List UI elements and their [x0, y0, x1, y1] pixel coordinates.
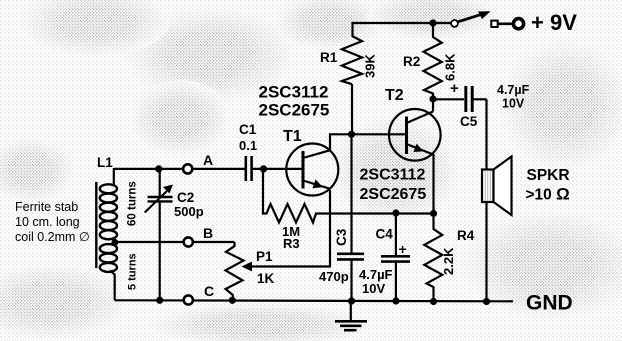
svg-text:+ 9V: + 9V	[531, 10, 577, 35]
svg-text:2.2K: 2.2K	[441, 247, 456, 275]
svg-text:C3: C3	[334, 228, 349, 246]
resistor R4	[424, 210, 442, 302]
wire T2 emitter	[432, 154, 434, 214]
svg-text:R2: R2	[403, 54, 420, 69]
svg-text:2SC3112: 2SC3112	[360, 167, 426, 184]
inductor L1	[100, 168, 117, 300]
svg-text:T2: T2	[385, 87, 404, 104]
svg-text:R1: R1	[320, 50, 338, 65]
node top junction	[429, 19, 436, 26]
terminal A	[183, 164, 192, 173]
wire R1 top stub	[351, 22, 353, 37]
node C4 gnd	[392, 297, 399, 304]
node R1 bottom junction	[348, 131, 355, 138]
svg-text:C1: C1	[239, 122, 257, 137]
svg-text:GND: GND	[526, 292, 573, 315]
battery terminal circle	[513, 19, 523, 29]
resistor R3	[263, 169, 319, 223]
svg-text:2SC3112: 2SC3112	[259, 83, 329, 102]
svg-text:R4: R4	[457, 228, 475, 243]
wire ground rail	[115, 300, 513, 301]
svg-text:Ferrite stab: Ferrite stab	[15, 200, 78, 214]
wire top rail	[353, 22, 452, 24]
wire T1 collector to T2 base	[330, 134, 407, 149]
wire to battery terminal	[498, 22, 514, 25]
svg-text:C4: C4	[376, 227, 394, 242]
potentiometer P1	[226, 242, 331, 300]
terminal B	[184, 237, 193, 246]
node L1 tap	[112, 239, 119, 246]
svg-text:>10 Ω: >10 Ω	[526, 185, 570, 204]
resistor R1	[342, 36, 362, 84]
transistor T1	[286, 144, 338, 196]
svg-text:39K: 39K	[363, 54, 378, 78]
svg-text:T1: T1	[283, 128, 302, 145]
terminal C	[184, 295, 193, 304]
switch contact square	[491, 21, 497, 27]
svg-text:L1: L1	[97, 155, 113, 170]
wire speaker feed	[485, 99, 487, 301]
svg-text:C: C	[204, 283, 214, 299]
svg-text:C2: C2	[177, 190, 194, 205]
capacitor C1	[246, 156, 303, 181]
svg-text:5 turns: 5 turns	[127, 253, 139, 290]
node R4 gnd	[430, 298, 437, 305]
wire row B	[115, 241, 235, 243]
capacitor C4	[381, 209, 410, 300]
wire T1 emitter down	[329, 190, 331, 268]
svg-text:60 turns: 60 turns	[127, 181, 139, 226]
node P1 gnd	[229, 297, 236, 304]
capacitor C2 variable	[145, 169, 173, 300]
svg-text:coil 0.2mm ∅: coil 0.2mm ∅	[15, 230, 90, 244]
svg-text:4.7µF: 4.7µF	[359, 267, 393, 282]
capacitor C5	[436, 86, 487, 112]
node C1 out	[260, 165, 267, 172]
svg-text:500p: 500p	[174, 204, 204, 219]
svg-text:P1: P1	[256, 249, 273, 264]
svg-text:R3: R3	[283, 236, 300, 251]
node C3 gnd	[348, 297, 355, 304]
svg-text:10V: 10V	[502, 97, 525, 111]
svg-text:A: A	[203, 152, 213, 168]
transistor T2	[389, 109, 441, 161]
wire T2 collector	[432, 99, 434, 112]
wire R1 bottom	[351, 84, 353, 135]
svg-text:1K: 1K	[257, 271, 275, 286]
svg-text:SPKR: SPKR	[527, 167, 570, 184]
ferrite core	[95, 182, 97, 268]
svg-text:2SC2675: 2SC2675	[259, 101, 330, 120]
svg-text:10V: 10V	[362, 281, 385, 296]
svg-text:6.8K: 6.8K	[443, 53, 458, 81]
svg-text:+: +	[450, 80, 459, 97]
svg-text:+: +	[399, 241, 407, 257]
node T2 collector junction	[429, 95, 436, 102]
switch S1	[451, 20, 458, 27]
node C2 gnd	[156, 297, 163, 304]
wire row A	[114, 168, 245, 170]
svg-text:4.7µF: 4.7µF	[497, 83, 530, 97]
capacitor C3	[337, 254, 364, 301]
wire collector node down to C3	[350, 134, 352, 253]
ground symbol	[335, 301, 367, 330]
svg-text:10 cm. long: 10 cm. long	[15, 215, 80, 229]
node C2 top	[155, 165, 162, 172]
svg-text:470p: 470p	[319, 269, 349, 284]
svg-text:C5: C5	[460, 114, 478, 129]
node speaker gnd	[483, 298, 490, 305]
svg-text:B: B	[203, 225, 213, 241]
speaker SPKR	[482, 157, 512, 216]
wire emitter row (R3 to R4)	[319, 212, 434, 214]
svg-text:2SC2675: 2SC2675	[360, 186, 427, 203]
resistor R2	[424, 23, 442, 99]
svg-text:0.1: 0.1	[239, 138, 257, 153]
